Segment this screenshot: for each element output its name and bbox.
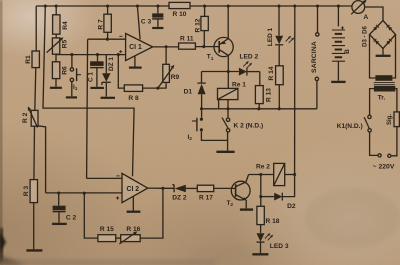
resistor R8 xyxy=(124,85,142,102)
battery B xyxy=(331,6,351,82)
resistor R10 xyxy=(169,2,190,17)
wire CI1 plus input xyxy=(56,54,126,56)
wire primary to K1 xyxy=(370,89,375,116)
transformer core xyxy=(374,83,395,85)
wire CI2 output xyxy=(148,187,174,189)
switch K2 (N.D.) xyxy=(216,109,263,152)
resistor R6 xyxy=(50,54,68,88)
resistor R7 xyxy=(97,6,111,39)
fuse Sig xyxy=(387,89,399,127)
potentiometer R2 xyxy=(22,106,38,127)
transformer Tr secondary coil xyxy=(375,75,392,81)
wire T1 collector node xyxy=(202,71,239,73)
transistor T2 xyxy=(227,175,254,210)
wire R2 to R3 xyxy=(33,126,36,179)
bridge rectifier D3-D6 xyxy=(363,21,396,49)
switch K1 (N.D.) xyxy=(337,115,372,132)
op-amp CI1 xyxy=(119,6,153,68)
LED 2 xyxy=(239,53,260,75)
terminal ~220V left xyxy=(378,154,381,157)
potentiometer R5 xyxy=(47,34,69,54)
wire R11 to T1 base xyxy=(195,46,219,48)
wire +V to Re2 xyxy=(294,6,296,175)
diode D1 xyxy=(184,72,206,118)
resistor R4 xyxy=(53,6,69,34)
capacitor C1 xyxy=(88,55,104,88)
wire K1 to mains terminal xyxy=(370,132,378,155)
potentiometer R16 xyxy=(119,226,140,244)
wire R8 to R9 xyxy=(143,82,167,88)
wire terminal to fuse xyxy=(391,127,397,156)
wire CI1 output xyxy=(153,46,179,48)
potentiometer R9 xyxy=(158,47,180,88)
wire minus link CI1 to CI2 xyxy=(87,39,88,178)
LED 1 xyxy=(267,6,294,46)
resistor R15 xyxy=(98,226,116,241)
resistor R18 xyxy=(257,197,280,233)
relay Re1 xyxy=(218,81,247,109)
terminal ~220V right xyxy=(388,154,391,157)
wire CI2 plus net xyxy=(46,192,122,194)
resistor R14 xyxy=(268,45,283,109)
wire top supply rail xyxy=(36,5,352,7)
ground below bridge xyxy=(382,49,384,55)
LED 3 xyxy=(252,233,288,254)
wire bridge to transformer secondary xyxy=(370,35,376,79)
zener DZ1 xyxy=(101,55,115,98)
wire R2 wiper to CI2 plus net xyxy=(38,126,46,193)
resistor R13 xyxy=(255,72,272,109)
resistor R1 xyxy=(25,6,39,110)
wire contact net xyxy=(202,108,317,110)
transistor T1 xyxy=(207,6,233,88)
resistor R11 xyxy=(179,36,196,50)
transformer Tr primary coil xyxy=(374,86,395,92)
wire R15 feedback drop xyxy=(84,193,98,238)
wire R16 to output xyxy=(140,188,163,238)
wire plus-net drop to R8 xyxy=(118,55,124,89)
push button I1 xyxy=(66,55,81,98)
relay Re2 xyxy=(249,163,295,185)
wire ammeter to bridge xyxy=(365,7,383,21)
diode D2 xyxy=(261,175,296,210)
resistor R12 xyxy=(195,6,209,47)
op-amp CI2 xyxy=(116,173,148,211)
load SARCINA xyxy=(311,6,319,109)
zener DZ2 xyxy=(172,185,197,202)
wire R15 to R16 xyxy=(116,237,121,239)
capacitor C3 xyxy=(141,6,164,28)
wire R17 to T2 base xyxy=(214,187,236,189)
resistor R17 xyxy=(197,185,213,201)
ammeter A xyxy=(351,0,368,21)
wire CI2 minus input xyxy=(87,177,122,179)
wire CI1 minus input xyxy=(88,38,126,40)
resistor R3 xyxy=(23,180,42,251)
capacitor C2 xyxy=(52,193,76,224)
wire +V branch to CI2 supply xyxy=(43,6,134,176)
push button I2 xyxy=(188,118,228,143)
